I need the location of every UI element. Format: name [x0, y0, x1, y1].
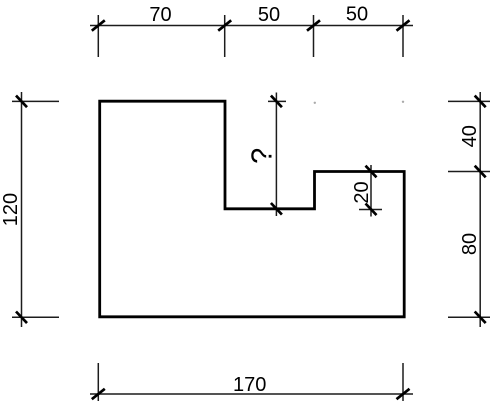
svg-text:170: 170	[233, 374, 266, 396]
svg-text:50: 50	[346, 4, 368, 26]
svg-text:?: ?	[247, 148, 279, 164]
svg-text:80: 80	[459, 233, 481, 255]
svg-text:50: 50	[258, 4, 280, 26]
svg-text:20: 20	[351, 181, 373, 203]
svg-text:70: 70	[149, 4, 171, 26]
svg-text:40: 40	[459, 125, 481, 147]
svg-text:120: 120	[0, 193, 22, 226]
